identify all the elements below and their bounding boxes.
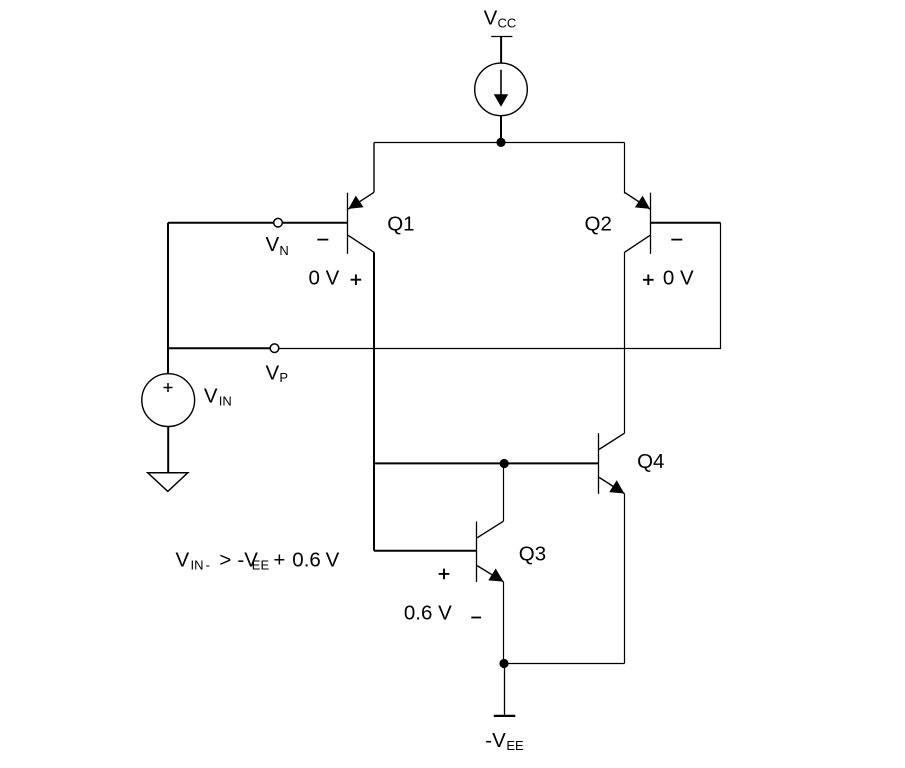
svg-text:0 V: 0 V [663,267,694,290]
svg-text:N: N [279,243,288,258]
svg-text:V: V [176,549,190,572]
VCC power rail bar [491,36,512,38]
wire current source to rail [500,116,502,143]
svg-text:IN: IN [219,394,232,409]
wire Q1 emitter lead [373,143,375,193]
terminal VP [270,344,279,353]
wire left vertical [167,223,169,374]
junction node base rail [500,459,509,468]
svg-text:V: V [484,7,498,30]
terminal VN [274,218,283,227]
svg-text:V: V [266,233,280,256]
label minus Q1 [317,239,328,241]
wire VIN to ground [167,427,169,473]
wire Q1 collector vertical [373,252,375,551]
wire VN base wire [168,222,348,224]
voltage source VIN circle [142,374,195,427]
wire Q4 emitter vertical [624,494,626,664]
label VIN [204,384,232,408]
svg-text:Q1: Q1 [387,213,414,236]
transistor Q1 (PNP) [348,192,375,254]
svg-text:IN: IN [191,558,204,573]
svg-text:0.6: 0.6 [292,549,321,572]
svg-text:0.6 V: 0.6 V [404,602,452,625]
label plus Q2 [643,275,654,286]
svg-text:+: + [273,549,285,572]
svg-text:CC: CC [498,16,517,31]
wire bottom horizontal [504,663,625,665]
junction tail node [496,138,505,147]
svg-text:>: > [219,549,231,572]
ground [148,473,188,492]
svg-text:Q2: Q2 [585,213,612,236]
net -VEE label [485,729,524,753]
svg-text:EE: EE [506,738,524,753]
junction bottom node [499,659,508,668]
label VN [266,233,289,258]
wire VP right segment [279,348,721,350]
label minus Q3 [471,617,481,619]
wire Q2 emitter lead [624,143,626,194]
wire Q3 collector vertical [503,463,505,521]
plus inside VIN [164,383,173,392]
svg-text:V: V [326,549,340,572]
label plus Q3 [439,569,450,580]
svg-text:-V: -V [485,729,506,752]
current source I1 circle [475,63,528,116]
svg-text:V: V [204,384,218,407]
svg-text:-: - [206,558,210,573]
wire base rail Q4 [374,462,598,464]
label VP [266,361,289,385]
label plus Q1 [351,274,362,285]
transistor Q2 (PNP) [625,192,651,254]
wire Q3 base [374,550,477,552]
svg-text:Q3: Q3 [519,543,546,566]
svg-text:0 V: 0 V [309,267,340,290]
wire top rail [374,142,625,144]
current source I1 arrow [500,70,502,96]
transistor Q3 (NPN) [477,521,504,582]
net VCC label [484,7,517,31]
label minus Q2 [671,239,682,241]
wire Q2 collector to Q4 collector [624,252,626,433]
svg-text:V: V [266,361,280,384]
svg-text:P: P [279,370,288,385]
wire to VEE [504,664,506,715]
wire right vertical [720,223,722,349]
annotation VIN- > -VEE + 0.6 V [176,549,340,573]
wire Q2 base to right [651,222,721,224]
svg-text:EE: EE [252,558,270,573]
svg-text:Q4: Q4 [637,450,664,473]
wire VP left segment [168,347,275,349]
VEE power bar [494,715,516,717]
wire VCC bar to current source [500,36,502,63]
transistor Q4 (NPN) [599,433,625,494]
wire Q3 emitter vertical [503,582,505,664]
